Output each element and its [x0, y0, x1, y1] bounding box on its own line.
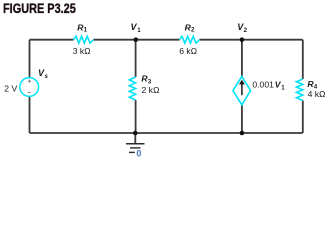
svg-text:0: 0 [136, 149, 141, 159]
svg-text:2 V: 2 V [4, 83, 17, 93]
svg-text:0.001: 0.001 [252, 80, 274, 90]
svg-text:6 kΩ: 6 kΩ [179, 46, 197, 56]
svg-text:2 kΩ: 2 kΩ [142, 85, 160, 95]
svg-text:3 kΩ: 3 kΩ [73, 46, 91, 56]
svg-text:FIGURE P3.25: FIGURE P3.25 [3, 1, 76, 17]
svg-text:2: 2 [191, 27, 195, 34]
svg-text:4 kΩ: 4 kΩ [308, 89, 326, 99]
svg-text:2: 2 [244, 27, 248, 34]
svg-text:1: 1 [137, 27, 141, 34]
svg-text:1: 1 [281, 84, 285, 91]
svg-text:1: 1 [84, 27, 88, 34]
